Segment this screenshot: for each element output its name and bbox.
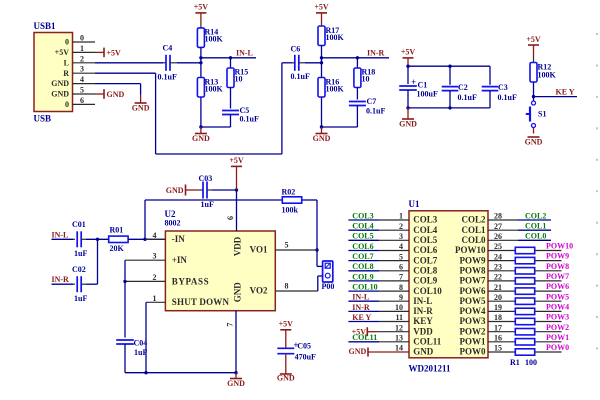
capacitor C5 0.1uF — [222, 110, 239, 112]
wire R17 to node — [321, 46, 323, 78]
U1 pin 1 wire and net label COL3 — [348, 219, 379, 221]
svg-text:10: 10 — [395, 303, 403, 312]
svg-text:POW5: POW5 — [546, 292, 569, 301]
svg-text:0.1uF: 0.1uF — [291, 72, 310, 81]
capacitor C02 1uF — [73, 283, 75, 285]
ground below R16 — [321, 127, 323, 134]
+5V power port above C1 — [403, 57, 414, 59]
svg-text:GND: GND — [51, 90, 69, 99]
svg-text:USB1: USB1 — [34, 21, 57, 31]
svg-text:5: 5 — [285, 241, 289, 250]
svg-text:COL11: COL11 — [413, 337, 442, 347]
svg-text:1uF: 1uF — [201, 200, 214, 209]
svg-text:COL8: COL8 — [352, 262, 373, 271]
svg-text:POW0: POW0 — [546, 343, 569, 352]
svg-text:GND: GND — [413, 347, 434, 357]
svg-text:COL8: COL8 — [413, 266, 438, 276]
svg-text:COL7: COL7 — [413, 255, 438, 265]
svg-text:+5V: +5V — [107, 48, 122, 57]
wire USB R pin routing — [95, 72, 156, 74]
svg-text:100K: 100K — [205, 35, 224, 44]
wire +5V to R14 — [200, 13, 202, 23]
wire C05 to ground — [285, 354, 287, 374]
svg-text:20: 20 — [494, 293, 502, 302]
resistor array R1 element for POW3 — [488, 321, 515, 323]
svg-text:4: 4 — [153, 231, 157, 240]
wires +IN/BYPASS to C04 — [124, 260, 126, 281]
svg-text:C6: C6 — [291, 45, 301, 54]
svg-text:27: 27 — [494, 222, 502, 231]
svg-text:100k: 100k — [282, 205, 299, 214]
svg-text:IN-L: IN-L — [352, 293, 369, 302]
svg-text:0.1uF: 0.1uF — [458, 93, 477, 102]
svg-text:IN-L: IN-L — [52, 230, 69, 239]
USB1 pin 6 (0) stub and labels — [73, 103, 96, 105]
ground below C05 — [280, 373, 292, 375]
sheet edge tick marks — [596, 33, 598, 350]
top rail of decoupling caps — [408, 65, 490, 67]
svg-text:COL2: COL2 — [525, 211, 546, 220]
resistor array R1 element for POW9 — [488, 260, 515, 262]
resistor array R1 element for POW7 — [488, 280, 515, 282]
svg-text:GND: GND — [227, 379, 245, 388]
wire C5 to rail — [230, 115, 232, 128]
U2 pin 7 GND vertical — [235, 311, 237, 373]
svg-text:12: 12 — [395, 323, 403, 332]
svg-text:2: 2 — [80, 54, 84, 63]
ground below S1 — [528, 136, 540, 138]
net label KEY wire — [534, 96, 578, 98]
svg-text:C4: C4 — [163, 44, 173, 53]
svg-text:16: 16 — [494, 334, 502, 343]
U1 pin 11 wire and net label KE Y — [348, 321, 379, 323]
svg-text:100uF: 100uF — [417, 90, 438, 99]
wire R12 to KEY node — [533, 82, 535, 97]
svg-text:COL1: COL1 — [525, 222, 546, 231]
svg-text:3: 3 — [399, 232, 403, 241]
svg-text:23: 23 — [494, 263, 502, 272]
wire VO1 to P00 — [317, 265, 323, 267]
svg-text:2: 2 — [153, 273, 157, 282]
svg-text:0.1uF: 0.1uF — [498, 93, 517, 102]
svg-text:18: 18 — [494, 313, 502, 322]
ground below R13 — [200, 127, 202, 134]
resistor R18 10 — [354, 68, 361, 88]
svg-text:COL6: COL6 — [352, 242, 373, 251]
U1 pin 7 wire and net label COL9 — [348, 280, 379, 282]
capacitor C6 — [292, 62, 294, 64]
bottom rail of amplifier — [125, 372, 236, 374]
svg-text:POW4: POW4 — [546, 303, 569, 312]
svg-text:470uF: 470uF — [295, 353, 316, 362]
svg-text:5: 5 — [399, 252, 403, 261]
capacitor C4 — [163, 62, 166, 64]
svg-text:8: 8 — [399, 283, 403, 292]
resistor R02 100k — [282, 197, 301, 203]
svg-text:1: 1 — [399, 212, 403, 221]
ground below U2 pin7 — [235, 373, 237, 379]
svg-text:4: 4 — [80, 75, 84, 84]
U2 pin 6 VDD vertical — [236, 190, 238, 231]
svg-text:VDD: VDD — [233, 236, 243, 256]
svg-text:COL0: COL0 — [461, 235, 486, 245]
svg-text:GND: GND — [107, 90, 125, 99]
node IN-L junction dots — [199, 56, 202, 59]
svg-text:COL7: COL7 — [352, 252, 373, 261]
U2 pin 3 +IN — [125, 259, 165, 261]
svg-text:SHUT DOWN: SHUT DOWN — [172, 297, 230, 307]
resistor array R1 element for POW4 — [488, 310, 515, 312]
bottom rail of decoupling caps — [408, 107, 490, 109]
svg-text:C04: C04 — [134, 338, 148, 347]
+5V power port above R12 — [528, 44, 539, 46]
branch to R18 — [356, 56, 359, 59]
USB connector USB1 body — [34, 33, 73, 112]
svg-text:+5V: +5V — [55, 48, 70, 57]
U1 pin 13 wire and net label COL11 — [348, 341, 379, 343]
svg-text:C3: C3 — [498, 83, 508, 92]
wire C6 to IN-R node — [305, 62, 322, 64]
svg-text:COL2: COL2 — [461, 215, 486, 225]
capacitor C3 0.1uF — [489, 66, 491, 85]
svg-text:3: 3 — [153, 252, 157, 261]
svg-text:C1: C1 — [418, 81, 428, 90]
svg-text:C02: C02 — [72, 265, 86, 274]
wire C4 to IN-L node — [177, 62, 201, 64]
svg-text:5: 5 — [80, 86, 84, 95]
svg-text:COL5: COL5 — [352, 232, 373, 241]
USB1 pin 2 (L) stub and labels — [73, 62, 96, 64]
svg-text:COL9: COL9 — [352, 272, 373, 281]
U1 pin 4 wire and net label COL6 — [348, 250, 379, 252]
svg-text:S1: S1 — [538, 110, 546, 119]
ground rail left channel — [201, 126, 231, 128]
U1 pin 2 wire and net label COL4 — [348, 229, 379, 231]
svg-text:1: 1 — [153, 294, 157, 303]
resistor R12 100K — [530, 63, 537, 83]
svg-text:POW4: POW4 — [460, 306, 486, 316]
+5V power port above R17 — [316, 12, 327, 14]
+5V power port on USB pin 1 — [95, 51, 104, 53]
svg-text:U2: U2 — [165, 209, 176, 219]
net label IN-L wire — [201, 57, 256, 59]
svg-text:COL3: COL3 — [413, 215, 438, 225]
svg-text:9: 9 — [399, 293, 403, 302]
wire R01 to pin4 junction — [128, 238, 165, 240]
wire C03 to VDD line — [212, 189, 237, 191]
svg-text:+5V: +5V — [401, 48, 416, 57]
svg-text:POW8: POW8 — [546, 262, 569, 271]
resistor array R1 element for POW1 — [488, 341, 515, 343]
svg-text:2: 2 — [399, 222, 403, 231]
+5V power port above R14 — [195, 12, 206, 14]
U1 pin 3 wire and net label COL5 — [348, 239, 379, 241]
svg-text:COL4: COL4 — [413, 225, 438, 235]
svg-text:COL3: COL3 — [352, 211, 373, 220]
svg-text:VDD: VDD — [413, 326, 433, 336]
net label IN-R wire — [322, 57, 390, 59]
svg-text:POW9: POW9 — [546, 252, 569, 261]
wire VO2 to P00 — [317, 276, 319, 291]
resistor array R1 element for POW2 — [488, 331, 515, 333]
capacitor C2 0.1uF — [449, 66, 451, 85]
svg-text:C01: C01 — [72, 220, 86, 229]
net label IN-L wire bottom left — [52, 238, 74, 240]
svg-text:100K: 100K — [205, 85, 224, 94]
wire C01 to junction — [86, 238, 109, 240]
resistor R14 100K — [197, 28, 204, 48]
svg-text:+5V: +5V — [526, 35, 541, 44]
svg-text:POW5: POW5 — [460, 296, 486, 306]
+5V power port above U2 — [231, 165, 242, 167]
svg-text:+IN: +IN — [172, 255, 188, 265]
svg-text:COL0: COL0 — [525, 232, 546, 241]
feedback wire up from pin4 junction — [144, 200, 146, 239]
svg-text:1: 1 — [80, 44, 84, 53]
connector P00 — [323, 261, 333, 282]
node IN-R junction dots — [320, 56, 323, 59]
svg-text:-IN: -IN — [172, 234, 185, 244]
wire +5V to C05 — [285, 330, 287, 349]
svg-text:U1: U1 — [409, 199, 420, 209]
U1 pin 28 wire and net label COL2 — [488, 219, 518, 221]
svg-text:POW2: POW2 — [546, 323, 569, 332]
svg-text:+5V: +5V — [279, 320, 294, 329]
svg-text:0.1uF: 0.1uF — [158, 73, 177, 82]
svg-text:C05: C05 — [297, 341, 311, 350]
svg-text:C7: C7 — [367, 97, 377, 106]
svg-text:28: 28 — [494, 212, 502, 221]
svg-text:COL1: COL1 — [461, 225, 486, 235]
svg-text:C03: C03 — [199, 174, 213, 183]
resistor array R1 element for POW8 — [488, 270, 515, 272]
svg-text:21: 21 — [494, 283, 502, 292]
svg-text:C2: C2 — [458, 83, 468, 92]
USB1 pin 0 (0) stub and labels — [73, 41, 96, 43]
svg-text:VO2: VO2 — [250, 286, 268, 296]
svg-text:100K: 100K — [326, 85, 345, 94]
svg-text:100K: 100K — [326, 33, 345, 42]
wire +5V to R17 — [321, 13, 323, 23]
svg-text:POW8: POW8 — [460, 266, 486, 276]
svg-text:IN-R: IN-R — [413, 306, 433, 316]
svg-text:15: 15 — [494, 344, 502, 353]
svg-text:GND: GND — [51, 79, 69, 88]
svg-text:IN-L: IN-L — [236, 48, 253, 57]
wire R14 to node — [200, 47, 202, 77]
svg-text:COL5: COL5 — [413, 235, 438, 245]
U2 pin 2 BYPASS — [125, 280, 165, 282]
svg-text:GND: GND — [399, 119, 417, 128]
U2 pin 8 VO2 — [275, 290, 318, 292]
svg-text:POW6: POW6 — [546, 282, 569, 291]
svg-text:COL10: COL10 — [413, 286, 442, 296]
svg-text:+5V: +5V — [229, 156, 244, 165]
capacitor C05 470uF polarized — [277, 347, 294, 349]
wire R18 to C7 — [356, 88, 358, 100]
svg-text:R01: R01 — [110, 226, 124, 235]
capacitor C04 1uF — [116, 339, 134, 341]
svg-text:+5V: +5V — [194, 3, 209, 12]
resistor array R1 element for POW6 — [488, 290, 515, 292]
main IC U1 body — [409, 211, 488, 358]
svg-text:KEY: KEY — [413, 316, 433, 326]
svg-text:+5V: +5V — [314, 3, 329, 12]
svg-text:4: 4 — [399, 242, 403, 251]
wire R13 to ground rail — [200, 97, 202, 127]
svg-text:POW6: POW6 — [460, 286, 486, 296]
svg-text:POW3: POW3 — [546, 313, 569, 322]
svg-text:GND: GND — [525, 137, 543, 146]
svg-text:GND: GND — [132, 103, 150, 112]
svg-text:6: 6 — [226, 216, 235, 220]
net label IN-R wire bottom left — [52, 283, 74, 285]
svg-text:26: 26 — [494, 232, 502, 241]
svg-text:3: 3 — [80, 65, 84, 74]
svg-text:8002: 8002 — [165, 219, 181, 228]
svg-text:GND: GND — [277, 373, 295, 382]
svg-text:GND: GND — [313, 134, 331, 143]
svg-text:0: 0 — [65, 38, 69, 47]
capacitor C7 0.1uF — [349, 101, 366, 103]
wire S1 to ground — [533, 128, 535, 134]
svg-text:COL4: COL4 — [352, 222, 373, 231]
svg-text:0: 0 — [80, 34, 84, 43]
USB1 pin 5 (GND) stub and labels — [73, 93, 96, 95]
svg-text:6: 6 — [80, 96, 84, 105]
svg-text:100K: 100K — [538, 71, 557, 80]
USB1 pin 4 (GND) stub and labels — [73, 83, 96, 85]
svg-text:GND: GND — [192, 134, 210, 143]
svg-text:25: 25 — [494, 242, 502, 251]
svg-text:11: 11 — [395, 313, 403, 322]
svg-text:6: 6 — [399, 263, 403, 272]
wire USB L pin to C4 — [95, 62, 163, 64]
U1 pin 10 wire and net label IN-R — [348, 310, 379, 312]
ground rail right channel — [322, 126, 358, 128]
svg-text:KE Y: KE Y — [352, 313, 371, 322]
svg-text:POW9: POW9 — [460, 255, 486, 265]
svg-text:R: R — [63, 69, 69, 78]
GND power port on USB pin 5 — [95, 93, 104, 95]
svg-text:1uF: 1uF — [74, 249, 87, 258]
svg-text:POW2: POW2 — [460, 326, 486, 336]
svg-text:VO1: VO1 — [250, 245, 268, 255]
resistor R15 10 — [227, 68, 234, 88]
svg-text:20K: 20K — [110, 244, 125, 253]
wire R15 to C5 — [230, 88, 232, 109]
wire C04 to bottom rail — [124, 344, 126, 373]
wire R16 to ground rail — [321, 97, 323, 127]
switch S1 pushbutton — [533, 97, 535, 101]
svg-text:24: 24 — [494, 252, 502, 261]
capacitor C1 100uF polarized — [407, 66, 409, 84]
svg-text:10: 10 — [362, 75, 370, 84]
+5V power port above C05 — [280, 329, 291, 331]
svg-text:POW10: POW10 — [455, 245, 486, 255]
capacitor C01 1uF — [73, 238, 75, 240]
resistor R01 20K — [109, 236, 128, 242]
USB1 pin 1 (+5V) stub and labels — [73, 51, 96, 53]
U1 pin 26 wire and net label COL0 — [488, 239, 518, 241]
resistor R16 100K — [318, 78, 325, 98]
svg-text:COL11: COL11 — [352, 333, 377, 342]
svg-text:7: 7 — [399, 273, 403, 282]
ground below USB pin4 — [140, 95, 142, 104]
svg-text:IN-R: IN-R — [367, 48, 385, 57]
svg-text:0.1uF: 0.1uF — [240, 115, 259, 124]
svg-text:KE Y: KE Y — [556, 87, 575, 96]
svg-text:POW3: POW3 — [460, 316, 486, 326]
svg-text:1uF: 1uF — [74, 294, 87, 303]
resistor array R1 element for POW0 — [488, 351, 515, 353]
svg-text:7: 7 — [226, 323, 235, 327]
svg-text:13: 13 — [395, 334, 403, 343]
svg-text:100: 100 — [525, 358, 537, 367]
svg-text:L: L — [64, 58, 69, 67]
wire C02 up to junction — [86, 283, 98, 285]
svg-text:+: + — [411, 77, 416, 87]
wire SHUTDOWN down to rail — [145, 302, 147, 372]
U1 pin 6 wire and net label COL8 — [348, 270, 379, 272]
USB1 pin 3 (R) stub and labels — [73, 72, 96, 74]
svg-text:10: 10 — [235, 75, 243, 84]
U1 pin 5 wire and net label COL7 — [348, 260, 379, 262]
U1 pin 9 wire and net label IN-L — [348, 300, 379, 302]
svg-text:0.1uF: 0.1uF — [366, 107, 385, 116]
resistor R17 100K — [318, 26, 325, 46]
svg-text:POW0: POW0 — [460, 347, 486, 357]
svg-text:COL9: COL9 — [413, 276, 438, 286]
op-amp U2 8002 body — [165, 231, 275, 311]
svg-text:GND: GND — [349, 347, 367, 356]
wire R02 to output node — [302, 199, 317, 201]
svg-text:POW7: POW7 — [546, 272, 569, 281]
resistor R13 100K — [197, 78, 204, 98]
svg-text:IN-L: IN-L — [413, 296, 432, 306]
U1 pin 27 wire and net label COL1 — [488, 229, 518, 231]
svg-text:R02: R02 — [282, 187, 296, 196]
wire C7 to rail — [356, 106, 358, 128]
svg-text:R1: R1 — [510, 358, 520, 367]
svg-text:POW7: POW7 — [460, 276, 486, 286]
svg-text:17: 17 — [494, 323, 502, 332]
svg-text:POW1: POW1 — [546, 333, 569, 342]
svg-text:BYPASS: BYPASS — [172, 276, 209, 286]
svg-text:POW10: POW10 — [546, 242, 573, 251]
svg-text:IN-R: IN-R — [352, 303, 370, 312]
capacitor C03 1uF — [198, 189, 203, 191]
svg-text:22: 22 — [494, 273, 502, 282]
U2 pin 5 VO1 — [275, 249, 317, 251]
ground below C1 — [407, 108, 409, 119]
svg-text:COL6: COL6 — [413, 245, 438, 255]
U2 pin 4 -IN — [145, 238, 165, 240]
wire USB pin4 to ground — [95, 83, 141, 85]
resistor array R1 element for POW10 — [488, 250, 515, 252]
U1 pin 8 wire and net label COL10 — [348, 290, 379, 292]
resistor array R1 element for POW5 — [488, 300, 515, 302]
svg-text:USB: USB — [34, 114, 52, 124]
svg-text:WD201211: WD201211 — [409, 364, 452, 374]
U2 pin 1 SHUTDOWN — [146, 301, 165, 303]
svg-text:POW1: POW1 — [460, 337, 486, 347]
svg-text:GND: GND — [233, 282, 243, 303]
svg-text:19: 19 — [494, 303, 502, 312]
svg-text:GND: GND — [166, 186, 184, 195]
svg-text:8: 8 — [285, 282, 289, 291]
svg-text:COL10: COL10 — [352, 283, 377, 292]
